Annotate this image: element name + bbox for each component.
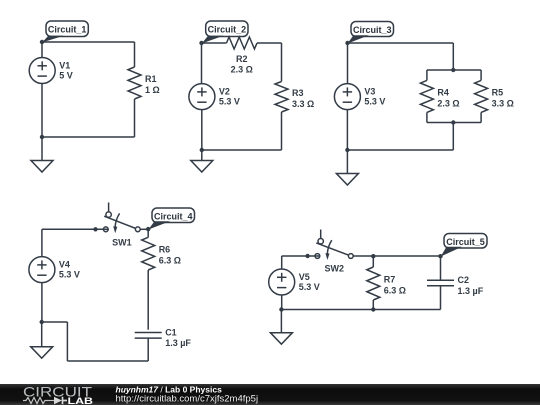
switch SW1 pivot terminal <box>106 212 111 217</box>
ground circuit 3 <box>336 150 358 185</box>
wire parallel top rail <box>427 69 481 71</box>
svg-text:5.3 V: 5.3 V <box>219 97 240 107</box>
svg-text:1 Ω: 1 Ω <box>145 85 160 95</box>
svg-text:Circuit_4: Circuit_4 <box>154 211 193 221</box>
wire R4 bottom stub <box>426 112 428 122</box>
node junction R6 top <box>146 227 150 231</box>
svg-text:6.3 Ω: 6.3 Ω <box>384 286 406 296</box>
wire R3 bottom stub <box>281 112 283 150</box>
wire R6 to C1 <box>147 270 149 330</box>
switch SW2 right terminal <box>348 254 353 259</box>
node junction parallel top <box>451 68 455 72</box>
wire R1 top stub <box>134 42 136 67</box>
ground circuit 2 <box>191 150 213 172</box>
svg-text:1.3 µF: 1.3 µF <box>458 286 484 296</box>
node junction circuit 5 bottom-left <box>279 307 283 311</box>
svg-text:R1: R1 <box>145 74 157 84</box>
capacitor C2 1.3 uF <box>427 275 484 296</box>
svg-text:SW1: SW1 <box>112 237 132 247</box>
wire V3 top <box>347 43 349 84</box>
svg-text:R4: R4 <box>437 87 449 97</box>
wire R5 bottom stub <box>480 112 482 122</box>
wire R5 top stub <box>480 70 482 80</box>
svg-text:C2: C2 <box>458 275 470 285</box>
voltage source V3 5.3 V <box>334 84 385 110</box>
node junction circuit 4 bottom <box>40 320 44 324</box>
node label Circuit_3 <box>348 22 394 44</box>
wire parallel bottom rail <box>427 122 481 124</box>
svg-text:http://circuitlab.com/c7xjfs2m: http://circuitlab.com/c7xjfs2m4fp5j <box>116 394 259 405</box>
switch SW2 actuation arrow <box>325 240 345 273</box>
wire V5 bottom <box>281 295 283 310</box>
node junction circuit 3 bottom-left <box>345 148 349 152</box>
wire top rail circuit 1 <box>42 41 135 43</box>
wire V2 top <box>201 43 203 84</box>
wire SW2 to R7 <box>353 255 373 257</box>
svg-text:R2: R2 <box>236 54 248 64</box>
wire V4 bottom <box>41 283 43 322</box>
node label Circuit_2 <box>202 21 248 44</box>
wire bottom run right <box>67 360 148 362</box>
svg-text:R6: R6 <box>159 245 171 255</box>
ground circuit 1 <box>31 137 53 172</box>
wire bottom rail circuit 5 <box>281 309 440 311</box>
svg-text:3.3 Ω: 3.3 Ω <box>492 98 514 108</box>
switch SW1 actuation arrow <box>112 213 132 247</box>
svg-text:V2: V2 <box>219 87 230 97</box>
voltage source V4 5.3 V <box>29 257 80 283</box>
wire C1 bottom stub <box>147 338 149 361</box>
svg-text:V5: V5 <box>299 272 310 282</box>
ground circuit 5 <box>270 310 292 345</box>
wire V3 bottom <box>346 110 348 150</box>
wire bottom rail circuit 3 <box>347 149 453 151</box>
switch SW2 left terminal <box>315 254 320 259</box>
resistor R1 1 Ohm <box>128 67 160 99</box>
wire to SW1 <box>42 228 108 230</box>
svg-text:V4: V4 <box>59 260 70 270</box>
svg-text:1.3 µF: 1.3 µF <box>165 338 191 348</box>
svg-text:2.3 Ω: 2.3 Ω <box>231 65 253 75</box>
node before SW2 <box>305 254 309 258</box>
svg-text:R5: R5 <box>492 87 504 97</box>
wire SW2 top stub <box>320 230 322 239</box>
wire V1 top <box>41 42 43 58</box>
wire R4 top stub <box>426 70 428 80</box>
svg-text:V1: V1 <box>59 61 70 71</box>
svg-text:Circuit_3: Circuit_3 <box>353 25 392 35</box>
svg-text:R3: R3 <box>292 88 304 98</box>
resistor R6 6.3 Ohm <box>142 237 181 270</box>
wire node to R2 <box>202 42 227 44</box>
wire V2 bottom <box>201 110 203 150</box>
switch SW1 lever <box>104 216 136 228</box>
switch SW1 right terminal <box>135 227 140 232</box>
wire V1 bottom <box>41 84 43 138</box>
svg-text:3.3 Ω: 3.3 Ω <box>292 99 314 109</box>
wire bottom rail circuit 1 <box>42 136 135 138</box>
svg-text:Circuit_2: Circuit_2 <box>208 24 247 34</box>
resistor R3 3.3 Ohm <box>275 82 314 113</box>
wire R1 bottom stub <box>134 99 136 137</box>
resistor R5 3.3 Ohm <box>475 80 514 112</box>
svg-text:5.3 V: 5.3 V <box>299 282 320 292</box>
voltage source V2 5.3 V <box>189 84 240 110</box>
wire V5 top <box>281 256 283 269</box>
node junction circuit 2 bottom <box>200 148 204 152</box>
svg-text:5.3 V: 5.3 V <box>364 97 385 107</box>
resistor R4 2.3 Ohm <box>420 80 459 112</box>
svg-text:C1: C1 <box>165 327 177 337</box>
svg-text:5 V: 5 V <box>59 71 73 81</box>
wire SW1 to node <box>140 228 148 230</box>
node junction R7 top <box>371 254 375 258</box>
wire R6 top stub <box>147 229 149 237</box>
wire R7 top stub <box>372 256 374 267</box>
wire R7 top to C2 node <box>373 255 440 257</box>
wire down from parallel bottom <box>452 123 454 151</box>
svg-text:Circuit_1: Circuit_1 <box>48 24 87 34</box>
switch SW2 pivot terminal <box>318 239 323 244</box>
wire bottom run left <box>42 321 68 323</box>
node junction circuit 2 top <box>199 41 203 45</box>
wire top rail circuit 3 <box>348 42 454 44</box>
resistor R7 6.3 Ohm <box>367 267 406 300</box>
svg-text:2.3 Ω: 2.3 Ω <box>437 98 459 108</box>
voltage source V1 5 V <box>29 58 73 84</box>
switch SW1 left terminal <box>103 227 108 232</box>
wire R7 bottom stub <box>372 300 374 310</box>
wire C2 bottom stub <box>440 286 442 310</box>
svg-text:Circuit_5: Circuit_5 <box>446 237 485 247</box>
wire C2 top stub <box>440 256 442 280</box>
wire down to parallel top <box>452 43 454 70</box>
node label Circuit_4 <box>148 208 194 230</box>
wire V4 top <box>41 229 43 256</box>
wire R3 top stub <box>281 43 283 82</box>
svg-text:V3: V3 <box>364 87 375 97</box>
node label Circuit_5 <box>441 234 487 257</box>
wire bottom rail circuit 2 <box>202 149 282 151</box>
node junction R7 bottom <box>371 307 375 311</box>
node junction parallel bottom <box>451 120 455 124</box>
resistor R2 2.3 Ohm <box>227 37 258 75</box>
wire R2 to corner <box>257 42 282 44</box>
CircuitLab logo diode symbol <box>48 400 54 402</box>
svg-text:SW2: SW2 <box>325 263 345 273</box>
footer bar <box>0 384 540 405</box>
ground circuit 4 <box>31 322 53 358</box>
node junction circuit 3 top-left <box>345 41 349 45</box>
node junction circuit 1 bottom <box>40 135 44 139</box>
capacitor C1 1.3 uF <box>135 327 192 348</box>
wire to SW2 <box>282 255 320 257</box>
node junction C2 top <box>438 254 442 258</box>
node before SW1 <box>93 227 97 231</box>
switch SW2 lever <box>316 243 348 255</box>
node junction circuit 1 top <box>40 40 44 44</box>
node label Circuit_1 <box>42 21 88 43</box>
voltage source V5 5.3 V <box>269 269 320 295</box>
svg-text:6.3 Ω: 6.3 Ω <box>159 256 181 266</box>
CircuitLab logo resistor squiggle <box>23 398 48 404</box>
wire bottom run up <box>66 322 68 361</box>
svg-text:5.3 V: 5.3 V <box>59 270 80 280</box>
svg-text:R7: R7 <box>384 275 396 285</box>
svg-text:LAB: LAB <box>68 396 94 405</box>
wire SW1 top stub <box>108 203 110 213</box>
